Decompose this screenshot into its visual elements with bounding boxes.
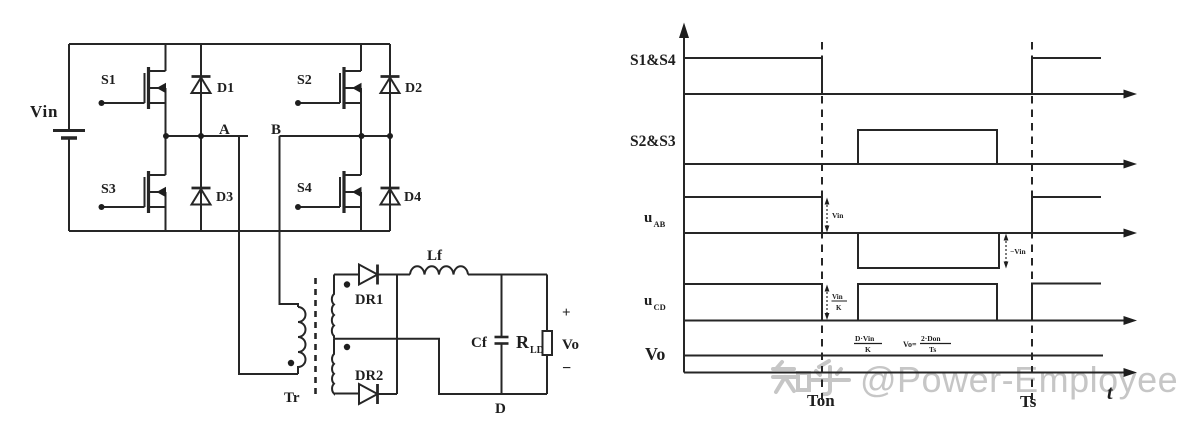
annotation D*Vin/K	[854, 334, 882, 354]
wire top rail	[69, 43, 390, 45]
annotation Vo=2*Don/Ts	[903, 334, 951, 354]
svg-text:Vin: Vin	[30, 102, 58, 121]
svg-text:Ts: Ts	[929, 345, 936, 354]
svg-text:D·Vin: D·Vin	[855, 334, 875, 343]
svg-text:−Vin: −Vin	[1010, 247, 1026, 256]
watermark glyph hu	[812, 361, 849, 394]
time axis horizontal	[684, 368, 1137, 377]
svg-text:K: K	[836, 304, 842, 312]
transistor S2	[298, 44, 362, 136]
svg-text:Ton: Ton	[807, 391, 835, 410]
diode DR1	[359, 265, 378, 285]
svg-text:+: +	[562, 305, 571, 321]
waveform uAB negative pulse	[858, 233, 999, 268]
svg-text:S1: S1	[101, 73, 116, 88]
row uAB baseline	[684, 229, 1137, 238]
wire inductor to load	[468, 274, 547, 276]
svg-text:D3: D3	[216, 190, 233, 205]
waveform uCD pulse	[858, 284, 997, 321]
svg-text:S2: S2	[297, 73, 312, 88]
node B	[280, 133, 394, 139]
node A	[163, 133, 248, 139]
waveform uCD positive segment 1	[684, 284, 822, 321]
secondary top polarity dot	[344, 281, 350, 287]
svg-text:Cf: Cf	[471, 335, 488, 351]
row S1&S4 baseline	[684, 90, 1137, 99]
row uCD baseline	[684, 316, 1137, 325]
svg-text:Vin: Vin	[832, 211, 844, 220]
primary polarity dot	[288, 360, 294, 366]
svg-text:DR1: DR1	[355, 292, 383, 308]
annotation -Vin amplitude	[1004, 234, 1027, 269]
svg-text:B: B	[271, 122, 281, 138]
transformer Tr primary winding	[298, 307, 306, 374]
transformer secondary top winding	[332, 275, 334, 339]
watermark glyph zhi	[773, 362, 809, 392]
transformer secondary bottom winding	[332, 339, 334, 394]
diode D1	[192, 44, 211, 136]
annotation Vin/K amplitude at Ton	[825, 285, 847, 321]
waveform uAB positive segment 1	[684, 197, 822, 233]
svg-text:Lf: Lf	[427, 248, 443, 264]
waveform uAB positive segment 2	[1032, 197, 1101, 233]
resistor RLD	[543, 331, 553, 355]
svg-text:S1&S4: S1&S4	[630, 52, 676, 69]
svg-text:S4: S4	[297, 181, 312, 196]
inductor Lf	[410, 266, 468, 274]
wire node B to transformer primary top	[280, 136, 299, 307]
dashed marker Ton	[821, 42, 823, 400]
transistor S4	[298, 136, 362, 231]
wire left rail upper	[68, 44, 70, 129]
svg-text:2·Don: 2·Don	[921, 334, 941, 343]
svg-text:Ts: Ts	[1020, 392, 1037, 411]
time axis vertical	[679, 23, 689, 373]
secondary bottom polarity dot	[344, 344, 350, 350]
transistor S3	[101, 136, 166, 231]
row Vo output line	[684, 355, 1103, 357]
wire DR2 cathode to junction	[378, 393, 398, 395]
wire bottom rail	[69, 230, 390, 232]
waveform S2&S3 pulse	[858, 130, 997, 164]
svg-text:D1: D1	[217, 81, 234, 96]
svg-text:CD: CD	[654, 302, 666, 312]
transformer core	[314, 278, 317, 394]
svg-text:S3: S3	[101, 182, 116, 197]
waveform S1&S4 pulse 1	[684, 58, 822, 94]
svg-text:S2&S3: S2&S3	[630, 133, 676, 150]
battery Vin	[53, 131, 85, 139]
transistor S1	[101, 44, 166, 136]
wire right rail	[546, 275, 548, 395]
diode D4	[381, 136, 400, 231]
diode D3	[192, 136, 211, 231]
svg-text:D: D	[495, 401, 506, 417]
wire rectifier output junction	[396, 275, 398, 395]
wire secondary top to DR1	[334, 274, 359, 276]
row S2&S3 baseline	[684, 160, 1137, 169]
svg-text:LD: LD	[530, 345, 544, 356]
wire left rail lower	[68, 139, 70, 231]
svg-text:R: R	[516, 332, 530, 352]
svg-text:A: A	[219, 122, 230, 138]
waveform S1&S4 pulse 2	[1032, 58, 1101, 94]
svg-text:AB: AB	[654, 219, 666, 229]
svg-text:u: u	[644, 293, 652, 309]
svg-text:D2: D2	[405, 81, 422, 96]
svg-text:D4: D4	[404, 190, 421, 205]
svg-text:−: −	[562, 360, 571, 377]
wire secondary bottom to DR2	[334, 393, 359, 395]
svg-text:t: t	[1107, 382, 1114, 404]
waveform uCD positive segment 2	[1032, 284, 1101, 321]
svg-text:Tr: Tr	[284, 390, 300, 406]
diode D2	[381, 44, 400, 136]
capacitor Cf	[495, 275, 509, 395]
svg-text:DR2: DR2	[355, 368, 383, 384]
diode DR2	[359, 384, 378, 404]
svg-text:Vin: Vin	[832, 293, 843, 301]
wire center tap to output return	[334, 339, 547, 394]
dashed marker Ts	[1031, 42, 1033, 400]
annotation Vin amplitude at Ton	[825, 198, 845, 233]
svg-text:Vo: Vo	[562, 337, 579, 353]
svg-text:K: K	[865, 345, 871, 354]
svg-text:u: u	[644, 210, 652, 226]
svg-text:Vo=: Vo=	[903, 340, 917, 349]
wire node A to transformer primary bottom	[239, 136, 298, 374]
wire DR1 cathode to inductor	[378, 274, 411, 276]
svg-text:Vo: Vo	[645, 344, 665, 364]
